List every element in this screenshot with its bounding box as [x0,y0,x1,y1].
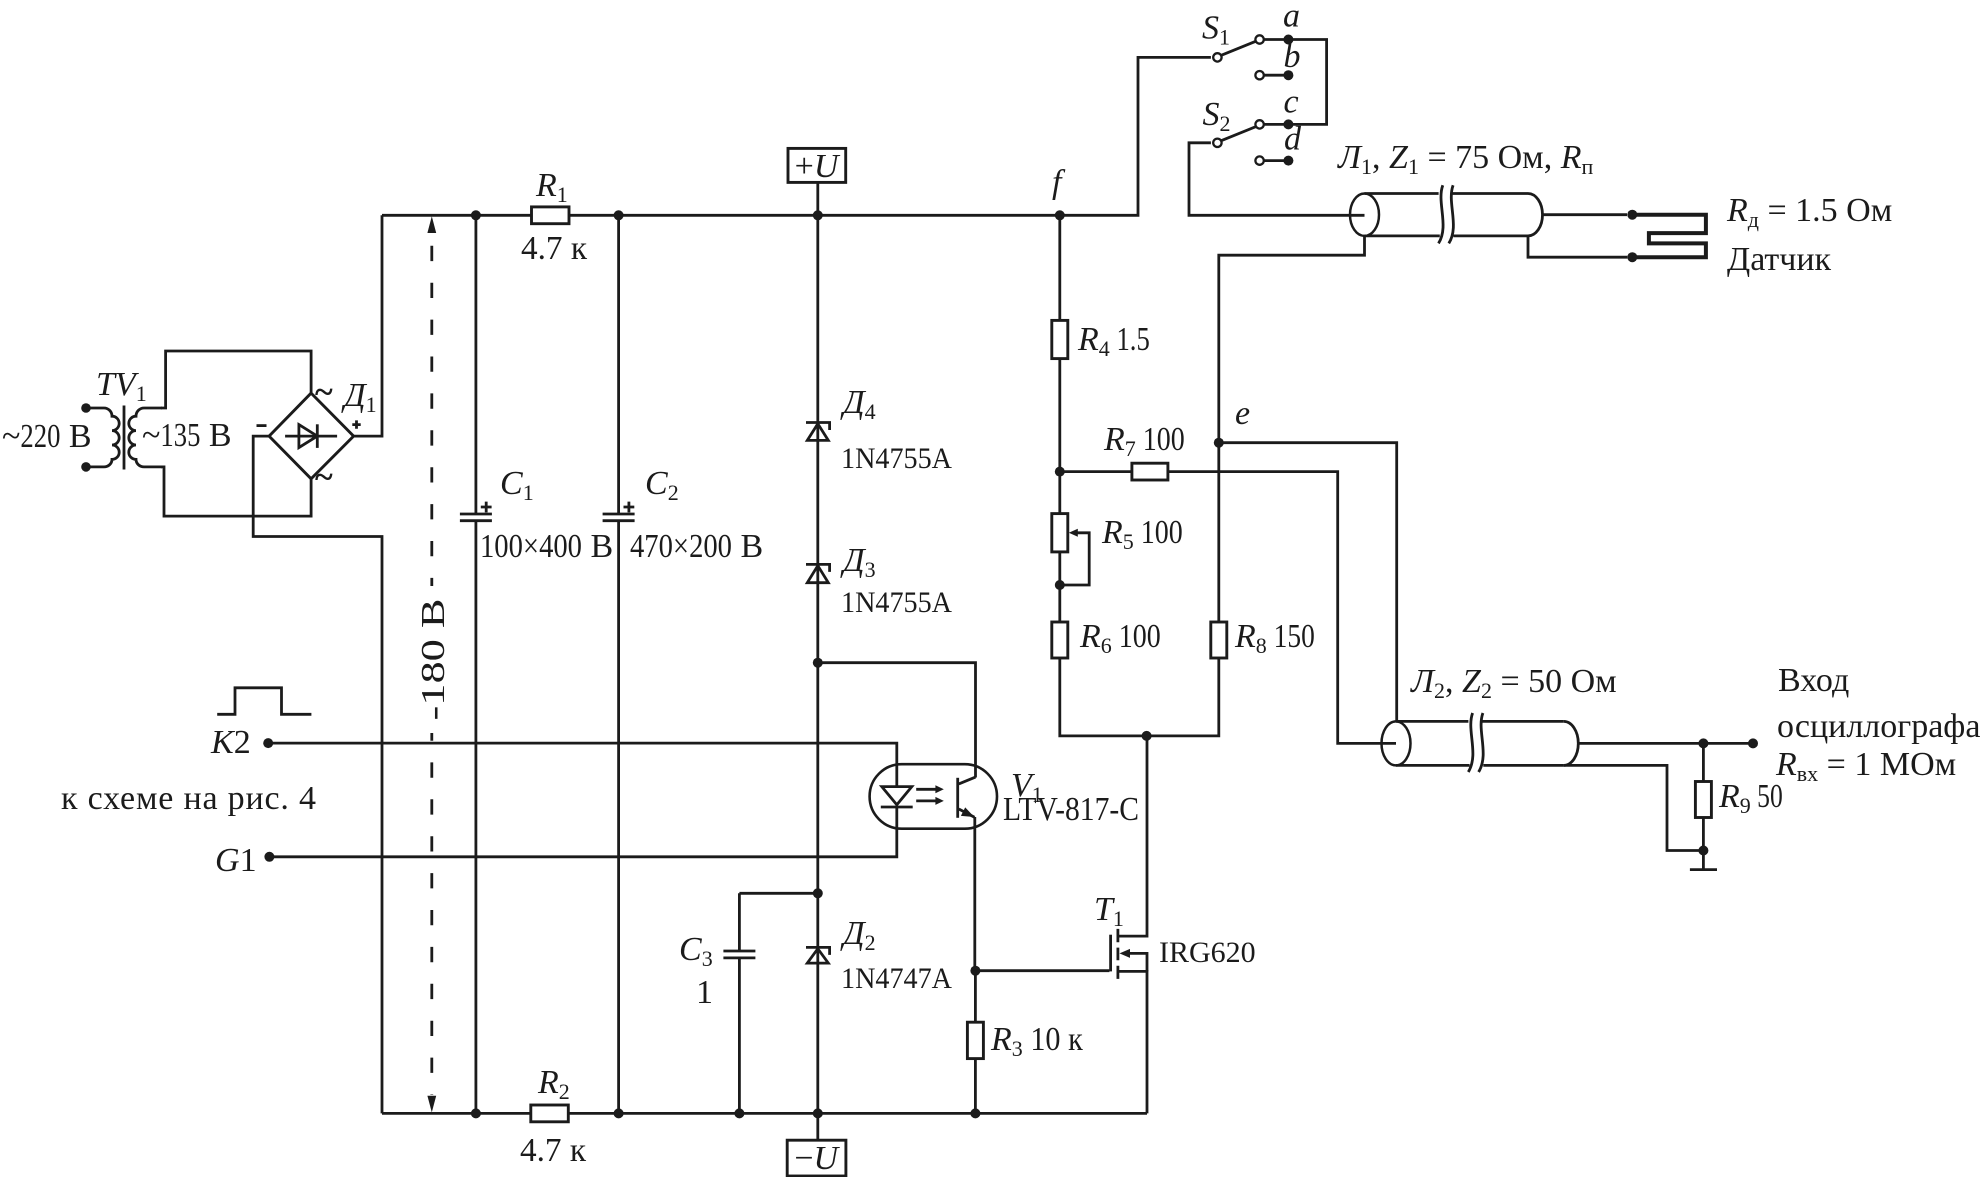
svg-text:e: e [1235,395,1250,432]
wire Л1 braid to sensor [1528,236,1627,257]
wire R7 branch [1060,472,1396,744]
node bottom rail minus [813,1108,823,1118]
svg-text:-180 В: -180 В [415,599,452,721]
svg-text:Вход: Вход [1778,662,1849,699]
zener Д4 [806,423,830,441]
svg-text:a: a [1283,0,1300,35]
potentiometer R5 [1052,514,1089,585]
ground [1690,851,1717,870]
wire f to R4 [1058,215,1061,320]
svg-text:−U: −U [794,1140,840,1177]
svg-text:~135 В: ~135 В [142,417,232,454]
svg-text:R6 100: R6 100 [1079,618,1161,658]
resistor R7 [1132,463,1168,480]
measurement -180 В [415,216,452,1112]
svg-text:R4 1.5: R4 1.5 [1077,321,1150,361]
terminal oscilloscope [1748,738,1758,748]
wire bridge minus output [253,436,382,1113]
label -U [787,1113,846,1177]
wire secondary bottom to bridge [161,467,311,516]
svg-text:b: b [1284,38,1301,75]
svg-text:R9 50: R9 50 [1718,778,1783,818]
svg-text:~: ~ [315,459,333,496]
svg-text:4.7 к: 4.7 к [520,1132,586,1169]
wire opto emitter to gate node [973,817,976,971]
terminal G1 [264,852,274,862]
optocoupler V1 [870,764,997,829]
svg-text:+U: +U [795,148,841,185]
wire a to c [1288,40,1326,125]
capacitor C2 [603,210,635,1118]
svg-text:4.7 к: 4.7 к [521,230,587,267]
node R4 R7 junction [1055,467,1065,477]
node gate [970,966,980,976]
svg-text:1N4755A: 1N4755A [841,442,952,475]
resistor R4 [1052,320,1068,358]
svg-text:~220 В: ~220 В [2,418,92,455]
svg-text:Л1, Z1 = 75 Ом, Rп: Л1, Z1 = 75 Ом, Rп [1337,139,1593,179]
label +U [788,148,846,185]
svg-text:R7 100: R7 100 [1103,421,1185,461]
wire gate [975,969,1109,972]
zener Д3 [806,564,830,582]
switch S2 [1213,119,1293,165]
svg-text:G1: G1 [215,842,257,879]
wire +U to rail [816,182,819,215]
svg-text:R5 100: R5 100 [1101,514,1183,554]
wire bottom rail [382,1112,1147,1115]
svg-text:100×400 В: 100×400 В [480,528,613,565]
node R5 wiper junction [1055,580,1065,590]
pulse symbol [217,688,311,715]
node f [1055,210,1065,220]
terminal K2 [263,738,273,748]
capacitor C3 [723,893,817,1118]
resistor R8 [1211,622,1227,658]
wire R4 to R5 [1058,359,1061,514]
node +U rail [813,210,823,220]
wire S2 to coax Л1 [1189,143,1365,216]
sensor Rд [1627,210,1706,263]
wire K2 to opto LED anode [268,743,897,787]
svg-text:1N4755A: 1N4755A [841,586,952,619]
wire zener chain vertical [816,215,819,1113]
zener Д2 [806,947,830,963]
coax Л2 [1382,713,1754,772]
svg-text:к схеме на рис. 4: к схеме на рис. 4 [61,780,316,817]
resistor R9 [1695,743,1711,855]
wire R5 to R6 [1058,552,1061,622]
svg-text:осциллографа: осциллографа [1777,708,1980,745]
svg-text:R8 150: R8 150 [1234,618,1315,658]
svg-text:~: ~ [315,374,333,411]
node opto collector branch [813,658,823,668]
resistor R1 [532,207,570,224]
svg-text:R3 10 к: R3 10 к [990,1021,1083,1061]
svg-text:d: d [1284,121,1302,158]
svg-text:1: 1 [696,974,713,1011]
wire R6 R8 bottom link [1060,658,1219,736]
node e [1214,438,1224,448]
transformer TV1 [81,403,162,472]
svg-text:c: c [1284,84,1299,121]
svg-text:Датчик: Датчик [1727,241,1832,278]
wire Л1 braid down to R8 [1219,236,1365,622]
resistor R3 [967,971,983,1119]
wire opto collector branch [818,663,976,778]
bridge rectifier Д1 [257,374,361,496]
wire bridge plus output [354,215,382,436]
wire e to Л2 braid [1219,443,1397,722]
svg-text:LTV-817-C: LTV-817-C [1003,791,1139,828]
switch S1 [1213,35,1293,81]
node C3 top branch [813,888,823,898]
svg-text:1N4747A: 1N4747A [841,962,952,995]
wire G1 to opto LED cathode [269,807,896,857]
resistor R2 [531,1105,569,1122]
wire secondary top to bridge [161,351,311,408]
capacitor C1 [460,210,492,1118]
svg-text:IRG620: IRG620 [1159,936,1256,969]
coax Л1 [1350,185,1627,243]
svg-text:K2: K2 [210,724,251,761]
node R9 top [1698,738,1708,748]
svg-text:470×200 В: 470×200 В [630,528,763,565]
transistor T1 [1111,736,1147,1114]
wire top rail [382,57,1211,215]
resistor R6 [1052,622,1068,658]
node T1 drain junction [1142,731,1152,741]
wire Л2 braid to ground [1564,765,1704,850]
